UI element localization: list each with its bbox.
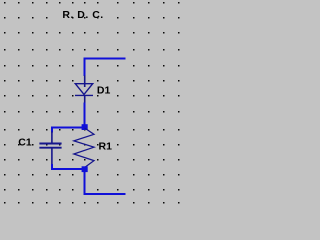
node A junction (top) bbox=[82, 124, 88, 130]
svg-text:C1: C1 bbox=[18, 137, 32, 149]
node B junction (bottom) bbox=[82, 166, 88, 172]
svg-text:R. D. C.: R. D. C. bbox=[62, 9, 103, 21]
wire node B to bottom open end bbox=[85, 171, 126, 194]
svg-text:R1: R1 bbox=[99, 141, 113, 153]
diode D1 bbox=[75, 84, 93, 96]
capacitor C1 bottom pin bbox=[51, 148, 53, 165]
wire diode cathode pin to node A bbox=[84, 102, 86, 126]
svg-text:D1: D1 bbox=[97, 85, 111, 97]
wire capacitor bottom pin to node B bbox=[52, 164, 84, 169]
diode D1 cathode pin bbox=[84, 95, 86, 102]
resistor R1 bbox=[74, 128, 94, 168]
wire top L from diode anode to open end bbox=[85, 59, 126, 77]
wire node A to capacitor top bbox=[52, 127, 84, 132]
capacitor C1 bbox=[39, 144, 61, 148]
diode D1 anode pin bbox=[84, 76, 86, 88]
capacitor C1 top pin bbox=[51, 132, 53, 144]
